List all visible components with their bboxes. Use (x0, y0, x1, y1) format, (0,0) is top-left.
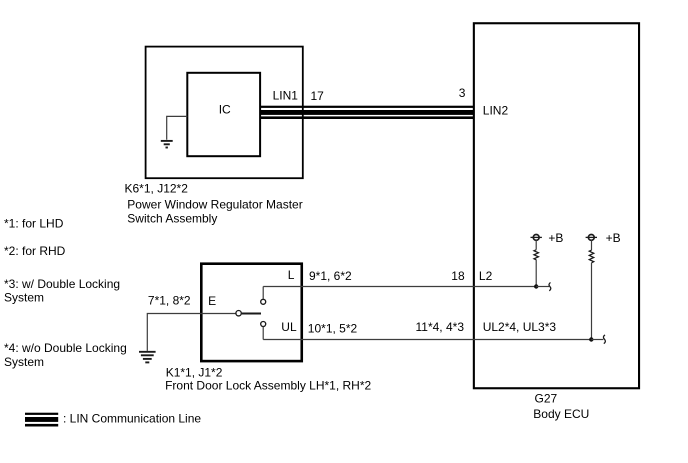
box: Body ECU G27 (474, 23, 639, 388)
legend: LIN communication line sample (25, 413, 58, 427)
switch common contact (door lock) (236, 311, 261, 316)
wire L to ECU L2 (263, 286, 536, 288)
svg-text:UL2*4, UL3*3: UL2*4, UL3*3 (483, 320, 557, 334)
svg-text:: LIN Communication Line: : LIN Communication Line (63, 412, 201, 426)
svg-text:Front Door Lock Assembly LH*1,: Front Door Lock Assembly LH*1, RH*2 (165, 378, 371, 392)
svg-text:K6*1, J12*2: K6*1, J12*2 (125, 182, 189, 196)
svg-text:L: L (288, 268, 295, 282)
continuation hook (UL) (603, 335, 605, 344)
resistor (left pull-up) (534, 250, 538, 260)
continuation hook (L2) (549, 283, 551, 291)
svg-text:Body ECU: Body ECU (533, 407, 589, 421)
ground (door lock E) (139, 352, 156, 363)
svg-text:+B: +B (606, 231, 621, 245)
wire UL to ECU UL2/UL3 (263, 339, 591, 341)
svg-text:E: E (208, 294, 216, 308)
svg-text:10*1, 5*2: 10*1, 5*2 (308, 322, 358, 336)
box: Front Door Lock Assembly K1*1/J1*2 (201, 264, 301, 361)
svg-text:7*1, 8*2: 7*1, 8*2 (148, 294, 191, 308)
svg-text:18: 18 (451, 269, 465, 283)
LIN communication line (triple band wire) (261, 106, 474, 119)
svg-text:IC: IC (219, 103, 231, 117)
svg-text:11*4, 4*3: 11*4, 4*3 (416, 320, 465, 334)
svg-text:LIN1: LIN1 (273, 88, 299, 102)
wire +B right down (591, 240, 593, 250)
svg-text:*3: w/ Double Locking: *3: w/ Double Locking (4, 277, 120, 291)
junction node UL (589, 337, 603, 341)
wire +B left down (535, 240, 537, 249)
svg-text:3: 3 (459, 86, 466, 100)
wire resistor right to UL junction (591, 263, 593, 340)
svg-text:L2: L2 (479, 269, 493, 283)
svg-text:*2: for RHD: *2: for RHD (4, 244, 66, 258)
switch contact L (261, 287, 266, 305)
svg-text:UL: UL (281, 320, 297, 334)
box: Power Window Regulator Master Switch Assembly K6*1/J12*2 (146, 47, 303, 179)
svg-text:Power Window Regulator Master: Power Window Regulator Master (127, 198, 302, 212)
svg-text:System: System (4, 355, 44, 369)
svg-text:+B: +B (548, 231, 563, 245)
svg-text:*1: for LHD: *1: for LHD (4, 216, 64, 230)
wire resistor left to L2 junction (535, 260, 537, 287)
svg-text:Switch Assembly: Switch Assembly (127, 212, 217, 226)
resistor (right pull-up) (589, 250, 593, 263)
+B terminal (left) (531, 231, 564, 245)
switch contact UL (261, 322, 266, 340)
svg-text:System: System (4, 291, 44, 305)
+B terminal (right) (586, 231, 621, 245)
IC U1 (master switch integrated circuit) (187, 73, 260, 156)
svg-text:LIN2: LIN2 (483, 103, 509, 117)
svg-text:*4: w/o Double Locking: *4: w/o Double Locking (4, 341, 127, 355)
svg-text:G27: G27 (535, 392, 558, 406)
svg-text:9*1, 6*2: 9*1, 6*2 (309, 269, 352, 283)
wire E pin to ground (147, 314, 236, 351)
wire IC to ground (167, 116, 188, 139)
ground (IC internal) (161, 141, 173, 148)
svg-text:17: 17 (311, 89, 325, 103)
junction node L2 (534, 284, 549, 288)
